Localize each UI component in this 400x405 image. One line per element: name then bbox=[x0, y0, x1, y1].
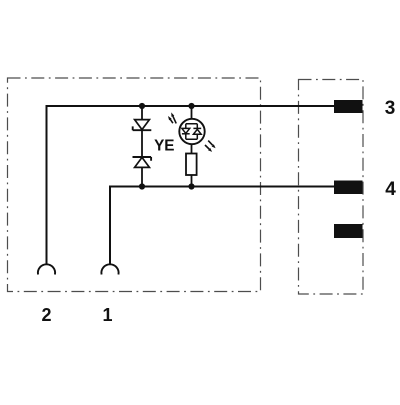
connector housing outline (dash-dot box, left) bbox=[8, 78, 261, 292]
socket contact 1 bbox=[101, 264, 118, 274]
svg-text:1: 1 bbox=[102, 305, 112, 325]
terminal spare (black pad, unlabeled) bbox=[334, 224, 363, 238]
terminal 4 (black pad) bbox=[334, 181, 363, 195]
junction: LED branch / top net bbox=[188, 103, 194, 109]
socket contact 2 bbox=[38, 264, 55, 274]
wire: top net from contact 2 to terminal 3 bbox=[47, 105, 339, 107]
wire: zener branch vertical bbox=[141, 106, 143, 187]
wire: vertical drop to contact 1 bbox=[109, 186, 111, 266]
junction: zener branch / bottom net bbox=[139, 183, 145, 189]
zener diode (top, cathode down) bbox=[133, 120, 152, 131]
LED inner anti-parallel diode pair bbox=[182, 124, 201, 140]
zener diode (bottom, cathode up) bbox=[133, 157, 152, 167]
resistor bbox=[186, 154, 197, 176]
junction: zener branch / top net bbox=[139, 103, 145, 109]
svg-text:4: 4 bbox=[385, 179, 396, 200]
wire: LED branch stub top bbox=[191, 106, 193, 119]
terminal 3 (black pad) bbox=[334, 100, 363, 113]
LED emission arrows (lower right) bbox=[205, 141, 213, 149]
wire: LED branch stub bottom (resistor to net) bbox=[191, 175, 193, 187]
wire: LED branch stub middle (circle to resistor) bbox=[191, 144, 193, 154]
svg-text:3: 3 bbox=[385, 98, 396, 119]
wire: vertical drop to contact 2 bbox=[46, 105, 48, 265]
svg-text:YE: YE bbox=[154, 137, 174, 154]
mating valve-side outline (dash-dot box, right) bbox=[299, 80, 364, 295]
wire: bottom net from contact 1 to terminal 4 bbox=[110, 186, 338, 188]
LED indicator circle bbox=[179, 119, 204, 144]
svg-text:2: 2 bbox=[41, 305, 51, 325]
junction: LED branch / bottom net bbox=[188, 183, 194, 189]
LED emission arrows (upper left) bbox=[170, 116, 176, 123]
